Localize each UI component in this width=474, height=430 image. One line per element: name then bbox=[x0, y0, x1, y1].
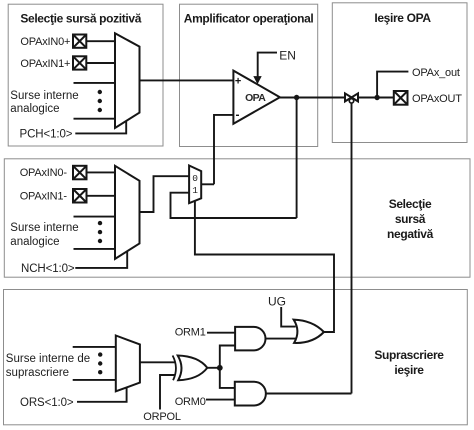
svg-text:PCH<1:0>: PCH<1:0> bbox=[20, 129, 73, 141]
svg-text:+: + bbox=[235, 75, 241, 87]
wire mux M3 out to op-amp minus bbox=[201, 183, 214, 185]
arrowhead EN bbox=[253, 76, 261, 84]
svg-text:ORM0: ORM0 bbox=[175, 396, 206, 408]
svg-text:OPAxIN0+: OPAxIN0+ bbox=[20, 36, 70, 48]
wire OR out to select line bbox=[324, 331, 334, 333]
pin OPAxOUT X-box bbox=[394, 91, 408, 105]
svg-text:EN: EN bbox=[279, 49, 296, 63]
svg-text:Ieşire OPA: Ieşire OPA bbox=[374, 11, 431, 25]
wire internal source row4 mid bbox=[74, 248, 116, 250]
dots mid mux inputs bbox=[98, 221, 102, 243]
box Selectie sursa pozitiva bbox=[8, 4, 163, 146]
svg-text:ORM1: ORM1 bbox=[175, 326, 206, 338]
dots top mux inputs bbox=[98, 90, 102, 112]
XOR gate X1 bbox=[178, 356, 208, 381]
mux M2 negative bbox=[115, 166, 140, 259]
switch bowtie right triangle bbox=[352, 93, 359, 101]
wire feedback to mux M3 input 1 bbox=[171, 193, 297, 218]
OR gate O1 bbox=[294, 320, 324, 343]
box Suprascriere iesire bbox=[4, 290, 468, 425]
svg-text:negativă: negativă bbox=[387, 227, 434, 241]
svg-text:analogice: analogice bbox=[10, 236, 59, 248]
pin OPAxIN1+ X-box bbox=[73, 56, 86, 69]
wire internal source row4 bbox=[74, 118, 116, 120]
svg-text:Selecţie sursă pozitivă: Selecţie sursă pozitivă bbox=[20, 11, 141, 25]
switch bowtie left triangle bbox=[345, 93, 352, 101]
svg-text:OPAxIN0-: OPAxIN0- bbox=[20, 167, 68, 179]
svg-text:OPAx_out: OPAx_out bbox=[412, 67, 460, 79]
svg-text:NCH<1:0>: NCH<1:0> bbox=[21, 263, 75, 275]
svg-text:sursă: sursă bbox=[395, 212, 426, 226]
box Amplificator operational bbox=[180, 4, 318, 146]
wire override row2 bbox=[73, 379, 116, 381]
wire internal source row3 bbox=[74, 82, 116, 84]
wire mux M3 select bbox=[195, 201, 334, 332]
wire internal source row3 mid bbox=[74, 216, 116, 218]
switch control circle bbox=[349, 99, 353, 103]
wire op-amp minus input bbox=[214, 115, 233, 184]
wire EN bbox=[258, 53, 277, 77]
svg-text:Surse interne: Surse interne bbox=[10, 222, 78, 234]
box Iesire OPA bbox=[332, 3, 467, 143]
wire ORM1 to AND1 bbox=[207, 332, 235, 334]
svg-text:ORS<1:0>: ORS<1:0> bbox=[20, 397, 74, 409]
wire AND1 out to OR bbox=[266, 338, 297, 340]
svg-text:OPAxIN1+: OPAxIN1+ bbox=[20, 58, 70, 70]
wire OPAxIN0+ to mux bbox=[86, 40, 115, 42]
junction XOR node bbox=[217, 365, 223, 371]
AND gate A2 bbox=[235, 382, 266, 406]
wire switch control down bbox=[351, 103, 353, 393]
wire ORPOL to XOR bbox=[160, 375, 176, 410]
svg-text:analogice: analogice bbox=[10, 103, 59, 115]
svg-text:0: 0 bbox=[192, 173, 198, 184]
wire XOR to AND1 bbox=[220, 346, 235, 368]
junction feedback node bbox=[294, 95, 299, 100]
AND gate A1 bbox=[235, 327, 265, 351]
wire AND2 out to switch control bbox=[266, 393, 352, 395]
svg-text:1: 1 bbox=[192, 185, 198, 196]
wire NCH select bbox=[75, 252, 127, 268]
svg-text:ieşire: ieşire bbox=[394, 363, 424, 377]
op-amp U1 triangle bbox=[233, 71, 280, 124]
wire OPAxIN1+ to mux bbox=[86, 62, 115, 64]
wire OPAxIN0- to mux bbox=[87, 171, 116, 173]
wire XOR out bbox=[207, 367, 220, 369]
wire OPAx_out branch bbox=[377, 72, 408, 98]
svg-text:OPAxIN1-: OPAxIN1- bbox=[20, 191, 68, 203]
wire PCH select bbox=[75, 121, 126, 133]
pin OPAxIN0- X-box bbox=[73, 166, 87, 180]
mux M4 override bbox=[116, 336, 140, 392]
svg-text:ORPOL: ORPOL bbox=[143, 411, 181, 423]
wire mux M1 out to op-amp plus bbox=[140, 79, 234, 81]
mux M3 feedback selector bbox=[189, 166, 201, 204]
wire OPAxIN1- to mux bbox=[87, 195, 116, 197]
svg-text:Surse interne de: Surse interne de bbox=[6, 353, 90, 365]
wire feedback down bbox=[296, 98, 298, 219]
svg-text:Selecţie: Selecţie bbox=[389, 197, 432, 211]
svg-text:suprascriere: suprascriere bbox=[6, 367, 69, 379]
pin OPAxIN0+ X-box bbox=[73, 35, 86, 48]
svg-text:OPA: OPA bbox=[245, 92, 266, 104]
svg-text:Surse interne: Surse interne bbox=[10, 90, 78, 102]
wire op-amp output bbox=[280, 97, 344, 99]
svg-text:Suprascriere: Suprascriere bbox=[374, 348, 444, 362]
wire switch to output bbox=[359, 97, 394, 99]
junction OPAx_out node bbox=[374, 95, 379, 100]
wire UG to OR bbox=[281, 307, 295, 327]
svg-text:OPAxOUT: OPAxOUT bbox=[412, 93, 462, 105]
wire XOR to AND2 bbox=[220, 368, 235, 388]
mux M1 positive bbox=[115, 33, 140, 128]
svg-text:UG: UG bbox=[268, 295, 286, 309]
pin OPAxIN1- X-box bbox=[73, 189, 87, 203]
svg-text:Amplificator operaţional: Amplificator operaţional bbox=[184, 12, 314, 26]
wire override row1 bbox=[73, 346, 116, 348]
wire ORS select bbox=[77, 387, 127, 402]
XOR back arc bbox=[173, 356, 176, 381]
dots override mux inputs bbox=[98, 352, 102, 374]
wire ORM0 to AND2 bbox=[206, 399, 235, 401]
wire mux M4 out to XOR bbox=[140, 361, 175, 363]
wire mux M2 out to mux M3 input 0 bbox=[140, 176, 190, 212]
svg-text:-: - bbox=[236, 108, 240, 122]
box middle Selectie sursa negativa bbox=[4, 159, 470, 277]
